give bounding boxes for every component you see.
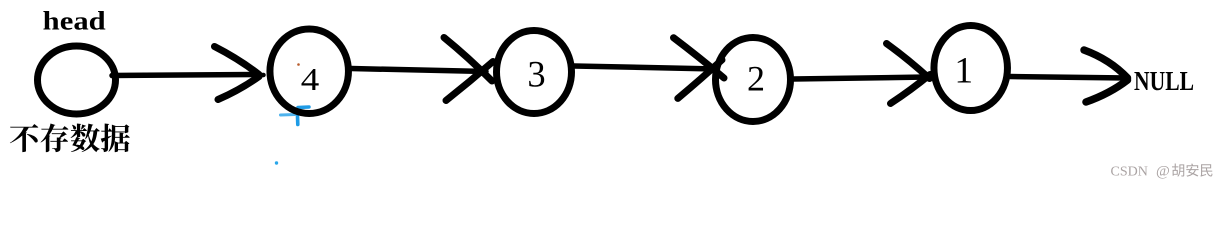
wire 2 to 1 [793, 77, 928, 79]
watermark char 胡 [1172, 164, 1184, 177]
char 存 [41, 123, 69, 152]
wire 1 to NULL [1010, 77, 1128, 79]
char 不 [10, 124, 38, 152]
wire 3 to 2 [574, 66, 716, 69]
blue pen dot [275, 161, 278, 164]
blue pen dash A under node 4 [281, 113, 296, 117]
wire 4 to 3 [351, 69, 486, 72]
orange speck [297, 63, 300, 66]
svg-text:3: 3 [527, 54, 545, 95]
watermark char 民 [1200, 164, 1212, 176]
char 数 [71, 124, 100, 153]
wire head to 4 [112, 75, 258, 76]
arrowhead into node 3 [444, 38, 492, 82]
svg-text:2: 2 [747, 59, 765, 99]
svg-text:CSDN: CSDN [1111, 165, 1148, 180]
arrowhead into node 1 [887, 44, 930, 79]
svg-text:@: @ [1156, 164, 1170, 180]
node 4 circle [270, 29, 349, 114]
arrowhead into node 2 [674, 38, 725, 78]
blue pen dash B vertical under node 4 [296, 117, 300, 125]
svg-text:head: head [43, 6, 106, 36]
arrowhead into node 4 [257, 73, 264, 78]
watermark char 安 [1186, 164, 1198, 177]
char 据 [101, 124, 130, 153]
blue pen dash C top [298, 105, 309, 109]
node 2 circle [716, 38, 791, 122]
svg-text:NULL: NULL [1134, 65, 1194, 96]
node 3 circle [497, 31, 572, 114]
arrowhead into NULL [1084, 50, 1128, 78]
node 1 circle [934, 26, 1008, 111]
svg-text:4: 4 [301, 61, 320, 97]
svg-text:1: 1 [954, 51, 973, 92]
head node circle [38, 46, 116, 114]
linked list diagram [0, 0, 1226, 187]
